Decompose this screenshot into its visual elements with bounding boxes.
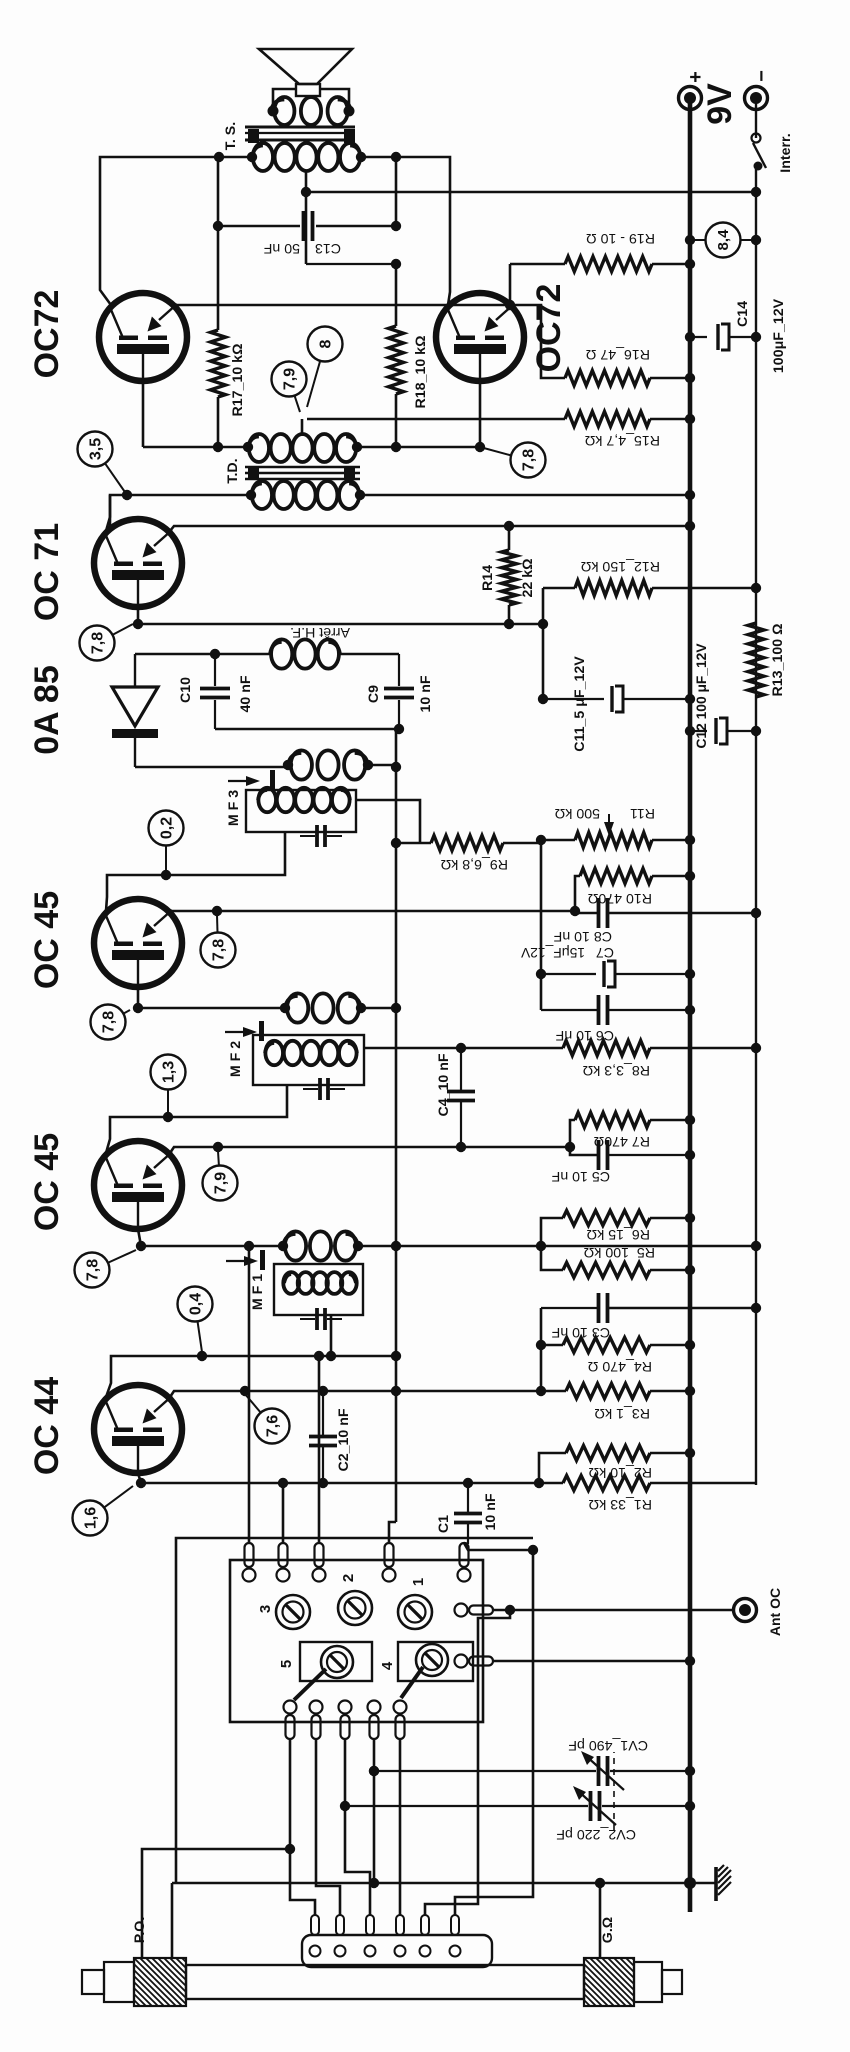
ferrite rod — [186, 1965, 584, 1999]
transformer T.D. primary winding — [225, 481, 360, 509]
wire T.S. primary bottom lead — [361, 156, 396, 159]
transformer T.S. secondary winding — [274, 97, 294, 125]
svg-text:0A 85: 0A 85 — [28, 665, 66, 754]
svg-text:7,8: 7,8 — [211, 939, 228, 961]
svg-text:R13_100 Ω: R13_100 Ω — [770, 624, 786, 697]
gang dashed link — [613, 1752, 615, 1830]
block pin 3 right — [313, 1569, 326, 1582]
T.D. winding end dots — [246, 490, 256, 500]
IF transformer MF3 box — [226, 790, 356, 832]
MF2 secondary winding — [287, 993, 308, 1022]
resistor R7 470 ohm — [570, 1113, 690, 1150]
wire block pin to +rail — [493, 1660, 690, 1663]
transformer T.S. core — [223, 122, 355, 150]
wires T.S. secondary to speaker — [273, 89, 297, 111]
svg-text:C7: C7 — [596, 944, 614, 960]
svg-text:CV2_220 pF: CV2_220 pF — [556, 1826, 636, 1842]
svg-text:15μF_12V: 15μF_12V — [520, 945, 585, 960]
emitter network bracket — [540, 1308, 543, 1391]
wire T.S. center tap to B- line — [305, 170, 308, 264]
wire pin2 to OC44 base — [282, 1483, 285, 1543]
MF3 tuning arrow — [228, 770, 275, 790]
test-point bubble 0,4 — [178, 1287, 213, 1353]
wire OC72-bottom collector to T.S. primary bottom — [396, 157, 450, 305]
svg-text:7,8: 7,8 — [101, 1011, 118, 1033]
wire emitter tap to R19 — [509, 264, 512, 305]
svg-text:C3 10 nF: C3 10 nF — [551, 1324, 610, 1340]
wire OC45b base to MF2 secondary — [138, 987, 285, 1008]
variable capacitor CV1 490pF — [374, 1737, 690, 1790]
test-point bubble 7,9 — [272, 362, 307, 413]
svg-text:7,8: 7,8 — [85, 1259, 102, 1281]
capacitor C10 40nF — [178, 654, 254, 729]
svg-text:1,3: 1,3 — [161, 1061, 178, 1083]
test-point bubble 1,3 — [151, 1055, 186, 1114]
svg-text:P.O.: P.O. — [132, 1917, 148, 1944]
wire OC72-bottom base — [449, 381, 480, 447]
wire AGC line — [540, 840, 543, 1010]
switch Interr. — [752, 133, 795, 172]
block bottom pin to +rail — [455, 1655, 468, 1668]
resistor R3 1k emitter — [566, 1384, 690, 1422]
rail riser — [172, 1882, 690, 1885]
svg-text:R3_1 kΩ: R3_1 kΩ — [594, 1405, 650, 1421]
svg-text:7,6: 7,6 — [265, 1415, 282, 1437]
potentiometer R11 500k volume — [541, 805, 690, 848]
svg-text:OC 44: OC 44 — [28, 1377, 66, 1475]
block pin 4 right — [383, 1569, 396, 1582]
block pin 2 right — [277, 1569, 290, 1582]
svg-text:OC 45: OC 45 — [28, 1133, 66, 1231]
wire MF3 secondary bottom — [368, 764, 396, 767]
wire T.D. primary top to OC71 collector — [110, 495, 251, 531]
resistor R12 150k — [543, 558, 756, 596]
test-point bubble 0,2 — [149, 811, 184, 872]
wire OC45a base to MF1 secondary — [138, 1229, 283, 1246]
test-point bubble 7,6 — [245, 1394, 290, 1444]
resistor R5 100k — [541, 1244, 690, 1278]
wire detector return line — [215, 728, 399, 731]
svg-text:R9_6,8 kΩ: R9_6,8 kΩ — [441, 856, 508, 872]
wire OC45b emitter — [170, 910, 575, 913]
svg-text:R18_10 kΩ: R18_10 kΩ — [413, 336, 429, 409]
wire pin5 to C1 — [464, 1543, 468, 1544]
wire pin1 to base return — [248, 1246, 251, 1543]
svg-text:500 kΩ: 500 kΩ — [555, 805, 600, 821]
svg-text:1: 1 — [410, 1578, 427, 1586]
wire pin3 to collector column — [318, 1356, 321, 1543]
junction dots battery rails — [685, 235, 695, 245]
resistor R17 10k — [211, 157, 247, 447]
terminal strip — [302, 1915, 492, 1967]
test-point bubble 7,8 — [80, 624, 134, 661]
wire T.S. primary top lead — [219, 156, 252, 159]
transistor Q4 OC71 — [94, 519, 182, 607]
MF1 secondary winding — [285, 1231, 306, 1260]
svg-text:5: 5 — [278, 1660, 295, 1668]
svg-text:C5 10 nF: C5 10 nF — [551, 1168, 610, 1184]
wire T.D. center tap to bias divider — [301, 419, 304, 436]
wire OC72-top collector to T.S. primary top — [100, 157, 219, 305]
wire OC44 collector column — [106, 1356, 394, 1397]
svg-text:C4_10 nF: C4_10 nF — [436, 1053, 452, 1116]
block pins left — [284, 1701, 297, 1714]
svg-text:1,6: 1,6 — [83, 1507, 100, 1529]
adjustable coil 4 box — [379, 1642, 473, 1698]
trimmer coil 2 — [338, 1574, 372, 1625]
test-point bubble 8 — [307, 327, 343, 408]
svg-text:R6_15 kΩ: R6_15 kΩ — [587, 1226, 650, 1242]
transistor Q1 OC44 converter — [94, 1385, 182, 1473]
svg-text:R19 - 10 Ω: R19 - 10 Ω — [586, 230, 655, 246]
wire OC45b collector to MF3 — [106, 832, 285, 911]
wire MF2 secondary bottom to line — [361, 1007, 396, 1010]
resistor R10 470 ohm — [575, 869, 690, 912]
ground — [684, 1865, 731, 1901]
wire MF1 primary bottom to collector column — [330, 1315, 333, 1356]
resistor R4 470 ohm — [541, 1338, 690, 1375]
wire pin4 to distribution line — [389, 1522, 396, 1543]
MF2 internal capacitor — [303, 1078, 345, 1100]
svg-text:R7 470Ω: R7 470Ω — [594, 1133, 650, 1149]
svg-text:M F 2: M F 2 — [228, 1041, 244, 1077]
transistor Q5 OC72 (top) — [99, 293, 187, 381]
G.O. winding on rod — [584, 1910, 682, 2052]
svg-text:40 nF: 40 nF — [238, 675, 254, 712]
transformer T.D. core — [225, 458, 360, 483]
svg-text:C12 100 μF_12V: C12 100 μF_12V — [694, 643, 709, 749]
transformer T.S. primary winding — [253, 143, 273, 171]
svg-text:C8 10 nF: C8 10 nF — [553, 928, 612, 944]
svg-text:3,5: 3,5 — [88, 438, 105, 460]
svg-text:OC72: OC72 — [28, 290, 66, 379]
svg-text:T. S.: T. S. — [223, 122, 239, 150]
wire OC71 emitter to +rail — [170, 526, 690, 531]
resistor R16 47 ohm — [513, 305, 690, 386]
wire MF3 primary bottom to AGC column — [356, 800, 420, 843]
capacitor C8 10nF — [553, 898, 756, 944]
diode OA85 — [112, 654, 158, 767]
svg-text:9V: 9V — [701, 83, 739, 125]
resistor R19 10 ohm — [510, 230, 690, 272]
resistor R9 6,8k AGC — [396, 836, 541, 873]
MF3 primary winding — [258, 788, 276, 812]
svg-text:+: + — [685, 71, 707, 83]
resistor R18 10k — [389, 264, 430, 447]
wire OC71 base column — [138, 607, 543, 624]
adjustable coil 5 box — [278, 1642, 372, 1700]
electrolytic C14 100uF — [690, 298, 787, 373]
svg-text:C13: C13 — [315, 240, 341, 256]
svg-text:Interr.: Interr. — [778, 133, 794, 172]
svg-text:C1: C1 — [436, 1515, 452, 1533]
svg-text:G.Ω: G.Ω — [600, 1917, 616, 1943]
capacitor C5 10nF — [551, 1140, 690, 1184]
wire block pin to rail riser — [399, 1739, 402, 1915]
svg-text:7,9: 7,9 — [213, 1172, 230, 1194]
wire OC45a collector to MF2 — [106, 1085, 287, 1153]
electrolytic C7 15uF — [520, 944, 690, 987]
svg-text:OC 45: OC 45 — [28, 891, 66, 989]
test-point bubble 7,8 — [75, 1250, 137, 1288]
svg-text:OC 71: OC 71 — [28, 523, 66, 621]
svg-text:R16_47 Ω: R16_47 Ω — [586, 346, 650, 362]
wire OC71 collector — [106, 495, 110, 531]
resistor R6 15k — [541, 1211, 690, 1247]
MF2 primary winding — [265, 1041, 283, 1065]
wire MF1 secondary / base bias column — [358, 1245, 756, 1248]
svg-text:0,2: 0,2 — [159, 817, 176, 839]
test-point bubble 7,9 — [203, 1151, 238, 1201]
block pin 1 right — [243, 1569, 256, 1582]
positive supply rail (+9V) — [688, 98, 693, 1912]
wire OC44 base column — [138, 1473, 468, 1483]
svg-text:−: − — [751, 70, 773, 82]
svg-text:R12_150 kΩ: R12_150 kΩ — [581, 558, 660, 574]
wire MF3 secondary bottom to detector line — [395, 729, 398, 767]
svg-text:10 nF: 10 nF — [418, 675, 434, 712]
svg-text:7,8: 7,8 — [90, 632, 107, 654]
transistor Q6 OC72 (bottom) — [436, 293, 524, 381]
wire G.O. lead — [599, 1883, 602, 1958]
svg-text:M F 1: M F 1 — [250, 1274, 266, 1310]
svg-text:R8_3,3 kΩ: R8_3,3 kΩ — [583, 1062, 650, 1078]
MF2 tuning arrow — [225, 1021, 264, 1041]
svg-text:4: 4 — [379, 1661, 396, 1670]
svg-text:0,4: 0,4 — [188, 1293, 205, 1315]
test-point bubble 7,8 — [91, 1005, 131, 1040]
terminal Ant OC — [493, 1588, 783, 1636]
svg-text:8: 8 — [318, 339, 335, 348]
block pin 5 right — [458, 1569, 471, 1582]
wire diode anode / Arret HF line — [135, 653, 215, 656]
svg-text:R14: R14 — [480, 565, 496, 591]
svg-text:7,8: 7,8 — [521, 449, 538, 471]
test-point bubble 7,8 — [480, 443, 546, 478]
IF transformer MF2 box — [228, 1035, 364, 1085]
resistor R14 22k — [480, 526, 536, 624]
test-point bubble 1,6 — [73, 1486, 134, 1536]
main distribution line — [395, 767, 398, 1522]
wire strip to antenna terminal — [425, 1610, 510, 1915]
resistor R8 3,3k feed — [466, 1041, 756, 1079]
resistor R15 4,7k — [307, 412, 690, 449]
block bottom pin to Ant OC — [455, 1604, 468, 1617]
capacitor C6 10nF — [541, 995, 690, 1043]
wire strip to block pins — [290, 1739, 315, 1915]
resistor R2 10k base bias — [539, 1446, 690, 1484]
svg-text:Ant OC: Ant OC — [767, 1588, 783, 1636]
svg-text:Arrêt H.F.: Arrêt H.F. — [290, 624, 350, 640]
capacitor C3 10nF — [541, 1293, 756, 1340]
wire OC44 emitter column — [170, 1391, 566, 1397]
wire B- feed down to negative rail — [306, 191, 756, 193]
wire T.D. secondary line to OC72 bases — [143, 446, 248, 449]
node T.S. primary top junction — [214, 152, 224, 162]
capacitor C1 10nF — [436, 1483, 499, 1544]
trimmer coil 1 — [398, 1578, 432, 1629]
svg-text:R11: R11 — [630, 805, 655, 821]
battery - terminal — [745, 70, 774, 109]
RF choke Arret HF — [270, 624, 350, 669]
IF transformer MF1 box — [250, 1264, 363, 1315]
negative supply rail (B-) — [755, 164, 757, 1485]
svg-text:C2_10 nF: C2_10 nF — [336, 1408, 352, 1471]
MF3 secondary winding (detector) — [291, 750, 312, 779]
svg-text:OC72: OC72 — [530, 284, 568, 373]
svg-text:R1_33 kΩ: R1_33 kΩ — [589, 1496, 652, 1512]
MF1 tuning arrow — [226, 1250, 265, 1270]
svg-text:C14: C14 — [735, 301, 751, 327]
svg-text:8,4: 8,4 — [715, 229, 732, 251]
MF1 internal capacitor — [300, 1308, 342, 1330]
svg-text:R4_470 Ω: R4_470 Ω — [588, 1358, 652, 1374]
wire P.O. leads — [142, 1849, 290, 1958]
trimmer coil 3 — [257, 1595, 310, 1629]
svg-text:C9: C9 — [366, 685, 382, 703]
transformer T.D. secondary winding — [249, 434, 269, 462]
capacitor C4 10nF — [436, 1048, 475, 1147]
electrolytic C12 100uF — [690, 643, 756, 749]
svg-text:C10: C10 — [178, 677, 194, 703]
svg-text:T.D.: T.D. — [225, 458, 241, 483]
MF3 internal capacitor — [300, 825, 342, 847]
wire MF2 primary top to R8 feed — [364, 1047, 466, 1050]
variable capacitor CV2 220pF — [345, 1786, 690, 1842]
node OC71 base network — [542, 588, 545, 699]
speaker — [259, 49, 352, 96]
svg-text:CV1_490 pF: CV1_490 pF — [568, 1737, 648, 1753]
svg-text:7,9: 7,9 — [282, 368, 299, 390]
wire OC72-top base to T.D. line — [142, 381, 145, 447]
svg-text:3: 3 — [257, 1605, 274, 1613]
test-point bubble 3,5 — [78, 432, 128, 496]
svg-text:C11_5 μF_12V: C11_5 μF_12V — [572, 656, 588, 752]
svg-text:50 nF: 50 nF — [263, 240, 300, 256]
coil/switch block outline — [230, 1560, 483, 1722]
svg-text:R15_4,7 kΩ: R15_4,7 kΩ — [585, 432, 660, 448]
MF1 primary winding — [283, 1272, 299, 1294]
wire T.D. primary bottom to +rail — [360, 494, 690, 497]
svg-text:100μF_12V: 100μF_12V — [771, 298, 787, 373]
electrolytic C11 5uF — [543, 656, 690, 752]
test-point bubble 7,8 — [201, 915, 236, 968]
wire OC45a emitter — [170, 1147, 570, 1153]
transistor Q3 OC45 (IF2) — [94, 899, 182, 987]
P.O. winding on rod — [82, 1910, 186, 2052]
wire diode cathode to MF3 secondary top — [135, 766, 288, 769]
transistor Q2 OC45 (IF1) — [94, 1141, 182, 1229]
svg-text:2: 2 — [340, 1574, 357, 1582]
wire strip to pin5 column — [455, 1543, 533, 1915]
test-point bubble 8,4 — [690, 223, 756, 258]
node R18/R19 column top — [306, 263, 396, 265]
svg-text:22 kΩ: 22 kΩ — [520, 559, 536, 598]
capacitor C13 50nF across T.S. primary — [218, 157, 401, 256]
resistor R13 100 ohm in B- rail — [748, 623, 786, 697]
resistor R1 33k — [468, 1476, 756, 1513]
battery + terminal — [679, 71, 708, 109]
svg-text:M F 3: M F 3 — [226, 790, 242, 826]
wire emitters tie line — [175, 304, 513, 307]
svg-text:R17_10 kΩ: R17_10 kΩ — [230, 344, 246, 417]
svg-text:10 nF: 10 nF — [483, 1493, 499, 1530]
capacitor C2 10nF — [309, 1391, 352, 1483]
capacitor C9 10nF — [366, 654, 434, 729]
wire antenna outer run — [176, 1538, 533, 1883]
